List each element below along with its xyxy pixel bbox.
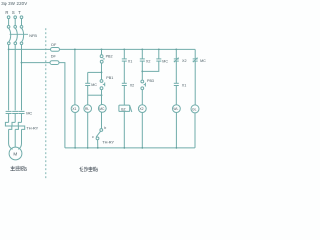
contactor MC main label: [26, 111, 32, 116]
pushbutton PB1 label: [106, 76, 113, 80]
svg-text:X2: X2: [130, 83, 135, 87]
svg-text:TH-RY: TH-RY: [26, 126, 38, 131]
svg-text:R: R: [5, 10, 8, 15]
wire top control bus: [60, 48, 196, 50]
wire phase R down: [8, 45, 10, 111]
wire R terminal to NFB: [8, 19, 10, 26]
buzzer BZ: [119, 105, 132, 112]
wire TH-RY contact to bottom bus: [97, 140, 99, 148]
svg-text:MC: MC: [91, 83, 97, 87]
thermal contact b label: [104, 126, 106, 130]
fuse DF1: [51, 48, 60, 52]
breaker NFB label: [29, 34, 37, 38]
svg-text:X2: X2: [146, 59, 151, 63]
rung B rail: [123, 49, 125, 51]
wire MC contacts to TH-RY: [8, 114, 10, 123]
svg-text:X1: X1: [128, 59, 133, 63]
svg-text:GL: GL: [192, 107, 197, 111]
svg-text:c: c: [92, 135, 94, 139]
contact X2 NO: [122, 83, 127, 85]
thermal relay TH-RY main label: [26, 126, 38, 131]
wire control feed 2: [22, 62, 51, 64]
svg-text:PB3: PB3: [147, 79, 154, 83]
relay coil X2: [138, 105, 146, 113]
breaker NFB pole 2: [14, 26, 17, 45]
lamp WL: [173, 105, 181, 113]
svg-text:S: S: [12, 10, 15, 15]
contact X2 NO rung C: [140, 59, 145, 61]
node tap T junction: [21, 62, 23, 64]
terminal R: [7, 16, 10, 19]
terminal S: [14, 16, 17, 19]
svg-text:MC: MC: [99, 107, 105, 111]
pushbutton PB3: [141, 80, 145, 90]
separator dashed line: [45, 28, 47, 179]
svg-text:MC: MC: [26, 111, 32, 116]
fuse DF1 label: [51, 43, 57, 47]
rung C rail: [141, 49, 143, 51]
breaker NFB pole 1: [7, 26, 10, 45]
rung A rail top: [101, 49, 103, 51]
svg-text:BZ: BZ: [121, 107, 125, 111]
breaker NFB tie bar: [10, 33, 28, 35]
node T label: [18, 10, 21, 15]
pushbutton PB2: [100, 55, 105, 63]
svg-text:PB1: PB1: [106, 76, 113, 80]
contactor coil MC: [98, 105, 106, 113]
wire fuse DF2 to left control rail: [59, 63, 65, 148]
wire T terminal to NFB: [21, 19, 23, 26]
breaker NFB pole 3: [20, 26, 23, 45]
contact X1 NO rung E: [174, 83, 179, 85]
svg-text:WL: WL: [173, 107, 178, 111]
svg-text:DF: DF: [51, 43, 57, 47]
svg-text:X2: X2: [139, 107, 143, 111]
wire TH-RY to motor: [9, 129, 13, 149]
svg-text:DF: DF: [51, 55, 57, 59]
wire rung D to rung C: [142, 61, 159, 71]
node tap R junction: [8, 49, 10, 51]
fuse DF2: [50, 61, 59, 65]
lamp GL: [191, 105, 199, 113]
wire PB2 to PB1: [101, 63, 103, 79]
rung D rail: [158, 49, 160, 51]
relay X1 branch wire: [74, 49, 76, 104]
svg-text:M: M: [13, 152, 17, 157]
rung E rail: [175, 49, 177, 51]
thermal relay TH-RY heater 2: [12, 122, 18, 129]
control circuit caption: [79, 167, 97, 172]
svg-text:X1: X1: [72, 107, 76, 111]
thermal contact c label: [92, 135, 94, 139]
svg-text:TH-RY: TH-RY: [102, 139, 114, 144]
contactor MC main contacts: [6, 111, 25, 113]
lamp RL: [84, 105, 92, 113]
thermal relay TH-RY control label: [102, 139, 114, 144]
contact MC NO rung D: [156, 59, 161, 61]
svg-text:3φ 3W 220V: 3φ 3W 220V: [1, 1, 27, 6]
motor M: [9, 147, 22, 160]
wire bottom control bus: [65, 147, 195, 149]
svg-text:X1: X1: [182, 84, 187, 88]
svg-text:T: T: [18, 10, 21, 15]
auxiliary contact MC seal: [85, 83, 90, 85]
svg-text:RL: RL: [85, 107, 89, 111]
svg-text:PB2: PB2: [106, 54, 113, 58]
thermal relay TH-RY heater 1: [5, 122, 11, 129]
seal branch bottom wire: [87, 86, 89, 105]
seal branch top wire: [88, 71, 102, 73]
wire PB1 to MC coil: [101, 90, 103, 105]
wire control feed 1: [9, 48, 51, 50]
svg-text:X2: X2: [182, 59, 187, 63]
contact X1 NO: [122, 59, 127, 61]
relay coil X1: [71, 105, 79, 113]
wire MC coil to TH-RY contact: [101, 112, 103, 128]
wire phase S down: [14, 45, 16, 111]
svg-text:MC: MC: [162, 59, 168, 63]
fuse DF2 label: [51, 55, 57, 59]
main circuit caption: [10, 166, 26, 171]
thermal relay TH-RY heater 3: [18, 122, 24, 129]
node S label: [12, 10, 15, 15]
contact X2 NC: [174, 58, 179, 63]
contact MC NC: [193, 58, 198, 63]
terminal T: [20, 16, 23, 19]
wire S terminal to NFB: [14, 19, 16, 26]
wire phase T down: [21, 45, 23, 111]
svg-text:NFB: NFB: [29, 34, 37, 38]
node R supply label: [1, 1, 27, 6]
thermal contact TH-RY b: [96, 129, 103, 140]
pushbutton PB1: [100, 80, 105, 90]
auxiliary contact MC seal label: [91, 83, 97, 87]
rung F rail: [194, 49, 196, 58]
svg-text:b: b: [104, 126, 106, 130]
pushbutton PB2 label: [106, 54, 113, 58]
node R label: [5, 10, 8, 15]
svg-text:MC: MC: [200, 59, 206, 63]
